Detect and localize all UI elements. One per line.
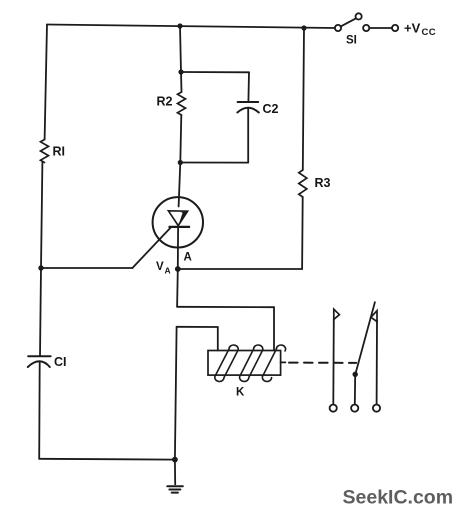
svg-text:A: A <box>184 252 192 264</box>
svg-text:V: V <box>156 261 164 273</box>
svg-text:C2: C2 <box>263 102 279 116</box>
svg-text:R3: R3 <box>315 176 331 190</box>
svg-text:CC: CC <box>422 27 437 38</box>
svg-text:SeekIC.com: SeekIC.com <box>343 487 454 509</box>
svg-text:A: A <box>165 266 171 276</box>
svg-text:SI: SI <box>346 35 357 47</box>
svg-text:CI: CI <box>54 355 67 369</box>
svg-text:+V: +V <box>404 21 421 36</box>
svg-text:K: K <box>236 387 245 399</box>
svg-text:RI: RI <box>53 145 66 159</box>
svg-text:R2: R2 <box>157 95 173 109</box>
